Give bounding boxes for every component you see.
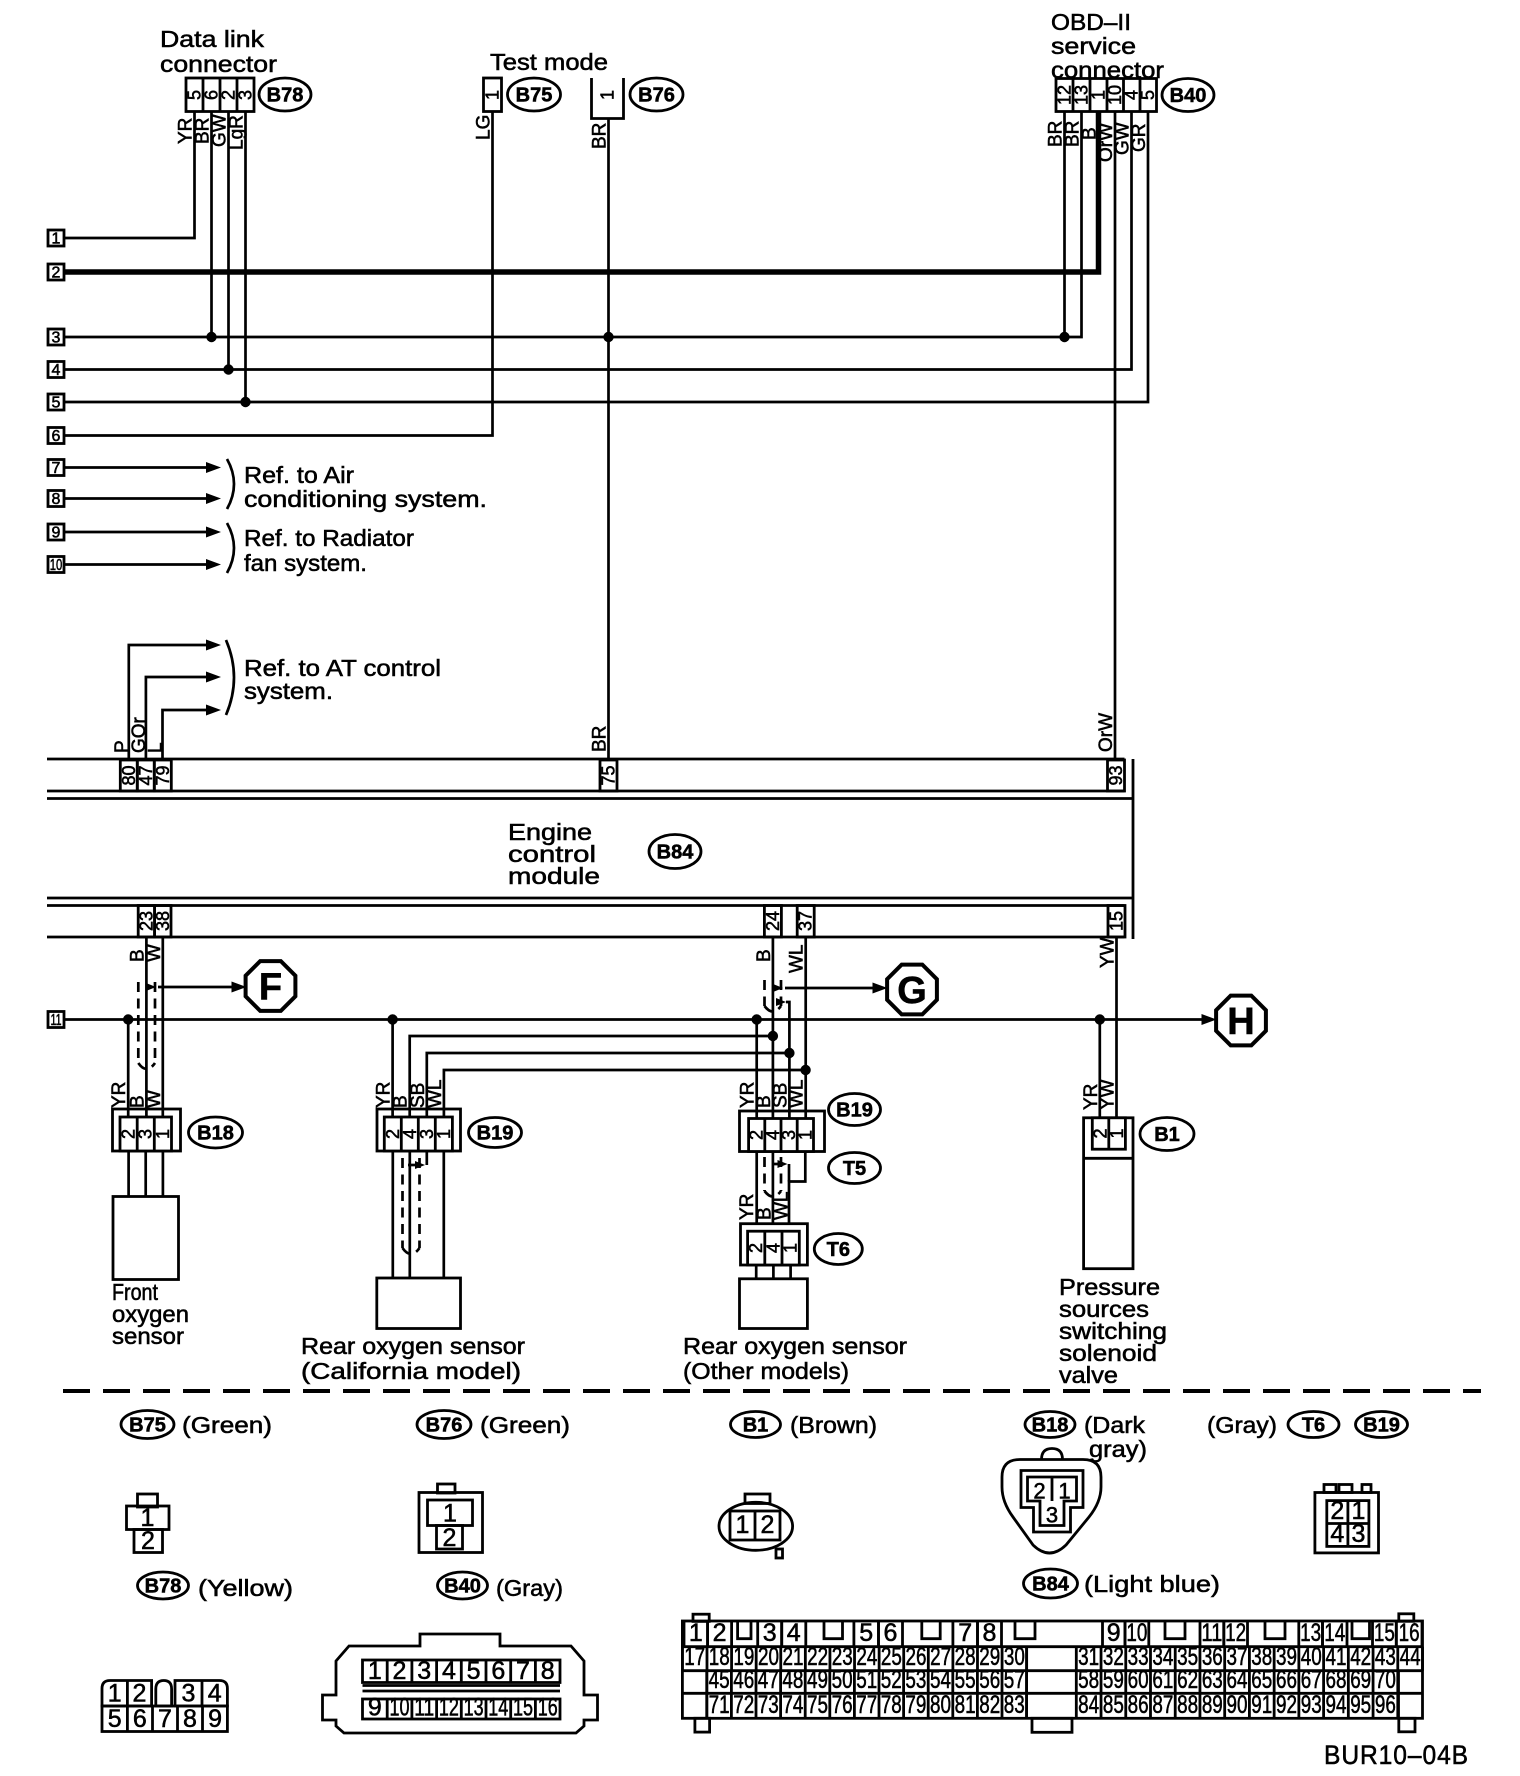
bus wire row 11 to connector H bbox=[64, 1018, 1209, 1021]
svg-text:24: 24 bbox=[763, 911, 783, 931]
svg-text:B: B bbox=[754, 949, 775, 962]
svg-text:16: 16 bbox=[538, 1694, 558, 1722]
junction: YR taps row 11 bbox=[123, 1014, 133, 1024]
svg-text:73: 73 bbox=[758, 1691, 779, 1719]
svg-text:6: 6 bbox=[491, 1657, 505, 1685]
svg-text:63: 63 bbox=[1202, 1666, 1223, 1694]
svg-text:BR: BR bbox=[590, 726, 611, 752]
wire B : ECM pin 24 down to B19 (other models) pin 4 bbox=[772, 937, 775, 1119]
svg-text:10: 10 bbox=[50, 557, 63, 574]
wire SB : shield drain down to B19 (other models) pin 3 bbox=[786, 1002, 789, 1119]
svg-text:93: 93 bbox=[1106, 765, 1126, 785]
svg-text:conditioning system.: conditioning system. bbox=[244, 486, 487, 512]
reference designator B19 bbox=[829, 1094, 881, 1126]
svg-text:84: 84 bbox=[1078, 1691, 1099, 1719]
svg-text:system.: system. bbox=[244, 678, 333, 704]
svg-text:H: H bbox=[1227, 1001, 1254, 1043]
svg-text:YW: YW bbox=[1098, 1079, 1119, 1110]
svg-text:3: 3 bbox=[236, 90, 256, 100]
wire WL : from other-model junction to B19 pin 1 bbox=[444, 1070, 806, 1117]
svg-text:service: service bbox=[1051, 33, 1136, 59]
svg-text:(Light blue): (Light blue) bbox=[1084, 1571, 1220, 1597]
shield drain arrow to connector G bbox=[773, 984, 783, 992]
svg-text:WL: WL bbox=[787, 945, 808, 974]
legend icon: connector B75 face view bbox=[138, 1494, 158, 1507]
svg-text:51: 51 bbox=[856, 1666, 877, 1694]
reference designator B40 bbox=[1162, 79, 1214, 112]
svg-text:B76: B76 bbox=[426, 1415, 463, 1437]
svg-text:B76: B76 bbox=[638, 85, 675, 107]
svg-text:Test mode: Test mode bbox=[490, 49, 608, 75]
svg-text:6: 6 bbox=[133, 1705, 147, 1733]
legend B40 (Gray) bbox=[438, 1572, 488, 1599]
legend B75 (Green) bbox=[121, 1411, 174, 1439]
bus wire row 4 to B40 pin4 bbox=[64, 112, 1132, 370]
svg-text:3: 3 bbox=[417, 1657, 431, 1685]
svg-text:1: 1 bbox=[52, 231, 61, 248]
svg-text:56: 56 bbox=[979, 1666, 1000, 1694]
wires below B19 other: YR and B bbox=[755, 1152, 758, 1225]
svg-text:G: G bbox=[897, 970, 927, 1012]
svg-text:4: 4 bbox=[1330, 1520, 1344, 1548]
junction: WL wire to California branch bbox=[800, 1065, 810, 1075]
svg-text:7: 7 bbox=[52, 460, 61, 477]
svg-text:13: 13 bbox=[464, 1694, 484, 1722]
reference designator B78 bbox=[259, 78, 311, 111]
svg-text:WL: WL bbox=[787, 1080, 808, 1109]
svg-text:91: 91 bbox=[1251, 1691, 1272, 1719]
svg-text:61: 61 bbox=[1152, 1666, 1173, 1694]
SB stub to shield drain bbox=[425, 1151, 428, 1165]
svg-text:8: 8 bbox=[183, 1705, 197, 1733]
node 3 (numbered bus terminal) bbox=[48, 329, 64, 345]
svg-text:66: 66 bbox=[1276, 1666, 1297, 1694]
svg-text:83: 83 bbox=[1004, 1691, 1025, 1719]
brace for AT control bbox=[226, 640, 234, 715]
svg-text:79: 79 bbox=[905, 1691, 926, 1719]
connector B19 (other models) pins 2,4,3,1 bbox=[740, 1111, 825, 1152]
shield (dashed) T5 around B wire bbox=[763, 1157, 766, 1191]
svg-text:(Other models): (Other models) bbox=[683, 1358, 849, 1384]
svg-text:74: 74 bbox=[782, 1691, 803, 1719]
svg-text:module: module bbox=[508, 863, 600, 889]
ECM pin 24 bbox=[764, 906, 781, 938]
bus wire row 2 (thick) to B40 pin1 bbox=[64, 112, 1099, 273]
svg-text:38: 38 bbox=[153, 911, 173, 931]
svg-text:T6: T6 bbox=[827, 1239, 850, 1261]
junction: GW joins row 4 bbox=[223, 364, 233, 374]
svg-text:(Brown): (Brown) bbox=[790, 1412, 877, 1438]
rear oxygen sensor (California) body bbox=[377, 1278, 461, 1329]
svg-text:70: 70 bbox=[1375, 1666, 1396, 1694]
svg-text:89: 89 bbox=[1202, 1691, 1223, 1719]
reference designator B84 bbox=[649, 835, 701, 869]
svg-text:4: 4 bbox=[208, 1680, 222, 1708]
wire row 9 with arrow bbox=[64, 531, 209, 534]
wire YR : row 11 down to B19 pin 2 bbox=[391, 1020, 394, 1118]
svg-text:86: 86 bbox=[1128, 1691, 1149, 1719]
svg-text:53: 53 bbox=[905, 1666, 926, 1694]
svg-text:67: 67 bbox=[1301, 1666, 1322, 1694]
legend B78 (Yellow) bbox=[138, 1572, 189, 1599]
wire YR : row 11 down to B1 pin 2 bbox=[1098, 1020, 1101, 1118]
legend icon: connector B84 face view (96-pin grid) bbox=[682, 1621, 1422, 1718]
svg-text:3: 3 bbox=[182, 1680, 196, 1708]
svg-text:1: 1 bbox=[483, 90, 503, 100]
junction: SB wire to California branch bbox=[784, 1048, 794, 1058]
svg-text:(Dark: (Dark bbox=[1084, 1412, 1146, 1438]
svg-text:Data link: Data link bbox=[160, 26, 265, 52]
svg-text:11: 11 bbox=[414, 1694, 434, 1722]
reference designator B1 bbox=[1140, 1118, 1194, 1151]
wire SB : from other-model junction to B19 pin 3 bbox=[427, 1053, 790, 1117]
off-page connector F bbox=[246, 961, 296, 1011]
svg-text:gray): gray) bbox=[1089, 1436, 1147, 1462]
svg-text:78: 78 bbox=[881, 1691, 902, 1719]
wire LgR : B78 pin3 down to bus row 5 bbox=[244, 112, 247, 403]
reference designator B75 bbox=[508, 78, 561, 111]
svg-text:B19: B19 bbox=[836, 1100, 873, 1122]
separator line bbox=[63, 1389, 1481, 1393]
svg-text:47: 47 bbox=[758, 1666, 779, 1694]
svg-text:8: 8 bbox=[52, 491, 61, 508]
svg-text:46: 46 bbox=[733, 1666, 754, 1694]
legend B76 (Green) bbox=[417, 1411, 471, 1439]
off-page connector G bbox=[887, 965, 937, 1015]
svg-text:77: 77 bbox=[856, 1691, 877, 1719]
svg-text:15: 15 bbox=[513, 1694, 533, 1722]
svg-text:OBD–II: OBD–II bbox=[1051, 9, 1131, 35]
svg-text:80: 80 bbox=[930, 1691, 951, 1719]
node 7 (numbered bus terminal) bbox=[48, 460, 64, 476]
legend icon: connector B40 face view bbox=[323, 1634, 598, 1733]
reference designator T5 bbox=[829, 1153, 881, 1184]
svg-text:5: 5 bbox=[52, 395, 61, 412]
shield (dashed) around B wire of front oxygen sensor bbox=[137, 982, 140, 1063]
front oxygen sensor body bbox=[113, 1197, 179, 1280]
svg-text:7: 7 bbox=[158, 1705, 172, 1733]
svg-text:B19: B19 bbox=[477, 1123, 514, 1145]
wire WL : ECM pin 37 down to B19 (other models) pin 1 bbox=[804, 937, 807, 1119]
svg-text:85: 85 bbox=[1103, 1691, 1124, 1719]
svg-text:2: 2 bbox=[761, 1511, 775, 1539]
wire YR : row 11 down to B19 (other models) pin 2 bbox=[755, 1020, 758, 1119]
junction: BR pin12 joins row 3 bbox=[1059, 332, 1069, 342]
svg-text:3: 3 bbox=[52, 330, 61, 347]
svg-text:B18: B18 bbox=[197, 1123, 234, 1145]
reference designator T6 bbox=[814, 1234, 862, 1265]
svg-text:W: W bbox=[144, 1090, 165, 1108]
wire GW : B78 pin2 down to bus row 4 bbox=[227, 112, 230, 370]
svg-text:4: 4 bbox=[442, 1657, 456, 1685]
legend icon: connector B76 face view bbox=[438, 1484, 456, 1493]
node 10 (numbered bus terminal) bbox=[48, 557, 64, 573]
svg-text:(Green): (Green) bbox=[182, 1412, 272, 1438]
legend icon: connector B78 face view bbox=[102, 1681, 152, 1707]
svg-text:WL: WL bbox=[772, 1192, 793, 1221]
svg-text:B75: B75 bbox=[129, 1415, 166, 1437]
svg-text:B1: B1 bbox=[743, 1415, 769, 1437]
shield drain arrow into SB wire bbox=[776, 998, 786, 1006]
svg-text:1: 1 bbox=[598, 90, 618, 100]
ECM pin 79 bbox=[154, 760, 171, 791]
connector B1 pins 2,1 and solenoid valve body bbox=[1084, 1118, 1133, 1269]
svg-text:12: 12 bbox=[439, 1694, 459, 1722]
svg-text:(Gray): (Gray) bbox=[496, 1575, 563, 1601]
node 11 (numbered bus terminal) bbox=[48, 1012, 64, 1028]
ECM pin 93 bbox=[1108, 760, 1125, 791]
svg-text:55: 55 bbox=[955, 1666, 976, 1694]
svg-text:(Green): (Green) bbox=[480, 1412, 570, 1438]
svg-text:82: 82 bbox=[979, 1691, 1000, 1719]
wire BR : B76 pin1 down to ECM pin 75 bbox=[607, 119, 610, 761]
connector B78 (data link connector) pin header 5,6,2,3 bbox=[186, 78, 254, 112]
svg-text:B78: B78 bbox=[267, 85, 304, 107]
svg-text:(Gray): (Gray) bbox=[1207, 1412, 1277, 1438]
node 2 (numbered bus terminal) bbox=[48, 264, 64, 280]
svg-text:1: 1 bbox=[781, 1243, 801, 1253]
svg-text:71: 71 bbox=[709, 1691, 730, 1719]
svg-text:2: 2 bbox=[52, 265, 61, 282]
svg-text:sensor: sensor bbox=[112, 1323, 184, 1349]
node 9 (numbered bus terminal) bbox=[48, 524, 64, 540]
node 6 (numbered bus terminal) bbox=[48, 428, 64, 444]
shield drain arrow to connector F bbox=[146, 983, 156, 991]
junction: B wire to California branch bbox=[768, 1031, 778, 1041]
reference designator B18 bbox=[189, 1117, 243, 1148]
ECM pin 47 bbox=[137, 760, 154, 791]
svg-text:69: 69 bbox=[1350, 1666, 1371, 1694]
svg-text:B84: B84 bbox=[1032, 1574, 1070, 1596]
node 4 (numbered bus terminal) bbox=[48, 362, 64, 378]
junction: LgR joins row 5 bbox=[240, 397, 250, 407]
svg-text:2: 2 bbox=[443, 1524, 457, 1552]
wire B : from other-model junction to B19 pin 4 bbox=[410, 1036, 773, 1117]
wire YR : row 11 down to B18 pin 2 bbox=[127, 1020, 130, 1118]
svg-text:88: 88 bbox=[1177, 1691, 1198, 1719]
svg-text:F: F bbox=[259, 967, 282, 1009]
svg-text:Rear oxygen sensor: Rear oxygen sensor bbox=[683, 1333, 907, 1359]
legend B1 (Brown) bbox=[731, 1412, 781, 1438]
wire GOr : ECM pin 47 up to AT control system bbox=[146, 677, 209, 760]
connector B19 (California) pins 2,4,3,1 bbox=[377, 1109, 461, 1151]
svg-text:72: 72 bbox=[733, 1691, 754, 1719]
svg-text:81: 81 bbox=[955, 1691, 976, 1719]
junction: YR taps row 11 (B1) bbox=[1095, 1014, 1105, 1024]
svg-text:48: 48 bbox=[782, 1666, 803, 1694]
svg-text:2: 2 bbox=[393, 1657, 407, 1685]
svg-text:BR: BR bbox=[590, 123, 611, 149]
svg-text:LgR: LgR bbox=[227, 115, 248, 150]
connector B75 pin 1 bbox=[484, 78, 502, 112]
svg-text:58: 58 bbox=[1078, 1666, 1099, 1694]
legend icon: connector B18 face view (triangle) bbox=[1042, 1449, 1063, 1460]
svg-text:62: 62 bbox=[1177, 1666, 1198, 1694]
wire YR : B78 pin5 to bus row 1 bbox=[64, 112, 195, 239]
svg-text:B18: B18 bbox=[1032, 1415, 1069, 1437]
svg-text:17: 17 bbox=[684, 1643, 705, 1671]
svg-text:B78: B78 bbox=[145, 1576, 182, 1598]
wire row 10 with arrow bbox=[64, 563, 209, 566]
svg-text:B84: B84 bbox=[657, 842, 695, 864]
svg-text:(Yellow): (Yellow) bbox=[198, 1575, 293, 1601]
svg-text:5: 5 bbox=[467, 1657, 481, 1685]
shield drain arrow into WL bbox=[772, 1163, 779, 1166]
svg-text:1: 1 bbox=[1107, 1128, 1127, 1138]
svg-text:2: 2 bbox=[1033, 1479, 1045, 1504]
svg-text:79: 79 bbox=[153, 765, 173, 785]
shield (dashed) around B wire (California) bbox=[401, 1158, 404, 1248]
svg-text:9: 9 bbox=[368, 1694, 382, 1722]
svg-text:1: 1 bbox=[368, 1657, 382, 1685]
shield drain arrow into SB bbox=[408, 1164, 416, 1167]
svg-text:10: 10 bbox=[390, 1694, 410, 1722]
junction: YR taps row 11 (California sensor) bbox=[387, 1014, 397, 1024]
bus wire row 5 to B40 pin5 bbox=[64, 112, 1148, 403]
wire BR : B40 pin12 down to bus row 3 bbox=[1063, 112, 1066, 338]
svg-text:fan system.: fan system. bbox=[244, 550, 367, 576]
svg-text:50: 50 bbox=[832, 1666, 853, 1694]
brace for rows 9-10 bbox=[227, 523, 234, 573]
svg-text:1: 1 bbox=[153, 1129, 173, 1139]
wire YW : ECM pin 15 down to B1 pin 1 bbox=[1115, 937, 1118, 1118]
svg-text:92: 92 bbox=[1276, 1691, 1297, 1719]
svg-text:49: 49 bbox=[807, 1666, 828, 1694]
svg-text:11: 11 bbox=[51, 1012, 62, 1029]
svg-text:14: 14 bbox=[488, 1694, 508, 1722]
ECM pin 23 bbox=[138, 906, 154, 938]
junction: BR joins row 3 bbox=[603, 332, 613, 342]
legend B84 (Light blue) bbox=[1024, 1569, 1078, 1598]
svg-text:1: 1 bbox=[108, 1680, 122, 1708]
node 5 (numbered bus terminal) bbox=[48, 394, 64, 410]
svg-text:7: 7 bbox=[516, 1657, 530, 1685]
svg-text:6: 6 bbox=[52, 428, 61, 445]
svg-text:94: 94 bbox=[1325, 1691, 1346, 1719]
connector T6 pins 2,4,1 bbox=[741, 1224, 808, 1265]
svg-text:T5: T5 bbox=[843, 1158, 866, 1180]
shield (dashed) around B wire below ECM pin 24 bbox=[763, 980, 766, 1006]
svg-text:75: 75 bbox=[599, 765, 619, 785]
brace for rows 7-8 bbox=[227, 459, 234, 509]
wire B : ECM pin 23 down to B18 bbox=[145, 937, 148, 1117]
svg-text:W: W bbox=[144, 944, 165, 962]
node 8 (numbered bus terminal) bbox=[48, 491, 64, 507]
svg-text:9: 9 bbox=[52, 525, 61, 542]
svg-text:93: 93 bbox=[1301, 1691, 1322, 1719]
svg-text:B19: B19 bbox=[1363, 1415, 1400, 1437]
legend icon: connector T6/B19 face view bbox=[1324, 1485, 1336, 1493]
svg-text:52: 52 bbox=[881, 1666, 902, 1694]
svg-text:96: 96 bbox=[1375, 1691, 1396, 1719]
svg-text:Rear oxygen sensor: Rear oxygen sensor bbox=[301, 1333, 525, 1359]
svg-text:5: 5 bbox=[108, 1705, 122, 1733]
svg-text:44: 44 bbox=[1400, 1643, 1421, 1671]
svg-text:64: 64 bbox=[1227, 1666, 1248, 1694]
svg-text:2: 2 bbox=[141, 1527, 155, 1555]
svg-text:B75: B75 bbox=[516, 85, 553, 107]
wire OrW : B40 pin10 down to ECM pin 93 bbox=[1114, 112, 1117, 761]
svg-text:76: 76 bbox=[832, 1691, 853, 1719]
wire P : ECM pin 80 up to AT control system bbox=[129, 645, 209, 760]
bus wire row 3 to B40 pin13 bbox=[64, 112, 1082, 338]
svg-text:T6: T6 bbox=[1302, 1415, 1325, 1437]
svg-text:45: 45 bbox=[709, 1666, 730, 1694]
junction: BR joins row 3 bbox=[206, 332, 216, 342]
node 1 (numbered bus terminal) bbox=[48, 230, 64, 246]
svg-text:valve: valve bbox=[1059, 1362, 1118, 1388]
legend icon: connector B1 face view bbox=[745, 1494, 770, 1504]
ECM body (Engine control module) outline bbox=[47, 758, 1125, 761]
svg-text:OrW: OrW bbox=[1096, 713, 1117, 752]
reference designator B76 bbox=[630, 78, 683, 111]
svg-text:1: 1 bbox=[795, 1130, 815, 1140]
svg-text:60: 60 bbox=[1128, 1666, 1149, 1694]
svg-text:LG: LG bbox=[474, 115, 495, 140]
wire L : ECM pin 79 up to AT control system bbox=[163, 710, 210, 760]
svg-text:87: 87 bbox=[1152, 1691, 1173, 1719]
svg-text:3: 3 bbox=[1351, 1520, 1365, 1548]
wires B18 to sensor body bbox=[127, 1151, 130, 1197]
legend B18 (Dark gray) bbox=[1025, 1412, 1075, 1438]
reference designator B19 bbox=[469, 1118, 522, 1148]
ECM pin 15 bbox=[1108, 906, 1125, 938]
wires below B19 California bbox=[391, 1151, 394, 1278]
svg-text:B40: B40 bbox=[444, 1576, 481, 1598]
ECM pin 38 bbox=[155, 906, 171, 938]
svg-text:2: 2 bbox=[133, 1680, 147, 1708]
svg-text:90: 90 bbox=[1227, 1691, 1248, 1719]
connector B76 pin 1 (open-top box) bbox=[592, 78, 624, 119]
ECM pin 37 bbox=[797, 906, 814, 938]
svg-text:1: 1 bbox=[434, 1129, 454, 1139]
off-page connector H bbox=[1216, 996, 1266, 1046]
svg-text:59: 59 bbox=[1103, 1666, 1124, 1694]
wires T6 to sensor body bbox=[755, 1265, 758, 1279]
svg-text:Ref. to Air: Ref. to Air bbox=[244, 462, 354, 488]
svg-text:57: 57 bbox=[1004, 1666, 1025, 1694]
ECM pin 75 bbox=[600, 760, 617, 791]
wire W : ECM pin 38 down to B18 bbox=[161, 937, 164, 1117]
wire WL jog to T6 bbox=[789, 1152, 805, 1225]
junction: YR taps row 11 (other models) bbox=[752, 1014, 762, 1024]
svg-text:Ref. to Radiator: Ref. to Radiator bbox=[244, 525, 414, 551]
svg-text:95: 95 bbox=[1350, 1691, 1371, 1719]
svg-text:75: 75 bbox=[807, 1691, 828, 1719]
svg-text:68: 68 bbox=[1325, 1666, 1346, 1694]
svg-text:3: 3 bbox=[1046, 1503, 1058, 1528]
svg-text:WL: WL bbox=[425, 1080, 446, 1109]
svg-text:YW: YW bbox=[1098, 937, 1119, 968]
svg-text:54: 54 bbox=[930, 1666, 951, 1694]
svg-text:15: 15 bbox=[1107, 911, 1127, 931]
wire row 7 with arrow bbox=[64, 466, 209, 469]
svg-text:(California model): (California model) bbox=[301, 1358, 521, 1384]
svg-text:B40: B40 bbox=[1170, 85, 1207, 107]
svg-text:65: 65 bbox=[1251, 1666, 1272, 1694]
wire row 8 with arrow bbox=[64, 497, 209, 500]
svg-text:BUR10–04B: BUR10–04B bbox=[1324, 1740, 1469, 1770]
svg-text:4: 4 bbox=[52, 362, 61, 379]
svg-text:connector: connector bbox=[160, 51, 277, 77]
svg-text:B1: B1 bbox=[1154, 1124, 1180, 1146]
rear oxygen sensor (other models) body bbox=[740, 1279, 808, 1329]
svg-text:5: 5 bbox=[1138, 90, 1158, 100]
svg-text:9: 9 bbox=[208, 1705, 222, 1733]
svg-text:L: L bbox=[146, 742, 167, 753]
connector B18 pins 2,3,1 bbox=[113, 1109, 181, 1151]
connector B40 (OBD-II service connector) pins 12,13,1,10,4,5 bbox=[1056, 79, 1157, 112]
